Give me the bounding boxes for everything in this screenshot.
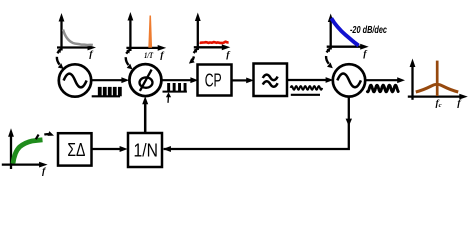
VCO noise plot (blue) axes xyxy=(327,14,369,50)
red white-noise curve xyxy=(200,42,229,43)
VCO sine symbol xyxy=(337,74,361,88)
annotation arrow orange plot to phase detector xyxy=(126,48,133,69)
svg-text:-20 dB/dec: -20 dB/dec xyxy=(350,25,387,36)
gray 1/f noise curve xyxy=(63,30,93,46)
wire CP to loop filter xyxy=(232,79,247,81)
svg-text:1/N: 1/N xyxy=(134,140,158,161)
sigma-delta noise plot (green) axes xyxy=(2,128,48,169)
loop filter box xyxy=(254,64,288,97)
spur plot (orange) axes xyxy=(126,12,166,51)
approx (filter) symbol xyxy=(263,75,278,87)
ripple waveform annotation xyxy=(291,86,323,90)
svg-text:f: f xyxy=(89,49,94,60)
svg-text:f: f xyxy=(457,98,462,109)
green shaped-noise curve xyxy=(13,140,43,164)
svg-text:f: f xyxy=(363,49,368,60)
annotation arrow red plot to CP xyxy=(189,48,198,64)
small up arrow under pulses xyxy=(166,92,171,97)
charge pump box CP xyxy=(198,65,232,96)
sine wave symbol after VCO xyxy=(367,85,398,92)
orange spur spike xyxy=(148,16,152,48)
feedback mid arrowhead xyxy=(346,119,352,127)
wire sigma-delta to divider xyxy=(92,148,121,150)
phi symbol xyxy=(140,70,153,91)
reference noise plot (gray) axes xyxy=(57,13,96,51)
square wave symbol xyxy=(92,88,121,96)
phase detector circle U_PFD xyxy=(129,64,161,96)
svg-text:f: f xyxy=(42,166,47,177)
arrowhead into divider xyxy=(163,146,171,152)
wire divider to phase detector xyxy=(144,103,147,133)
svg-text:CP: CP xyxy=(205,70,222,91)
ripple mean line xyxy=(291,94,320,96)
annotation arrow blue plot to VCO xyxy=(326,47,333,68)
wire loop filter to VCO xyxy=(287,79,326,81)
VCO circle xyxy=(333,64,365,96)
sigma-delta modulator box xyxy=(58,133,92,165)
feedback wire from VCO down and left xyxy=(164,96,349,149)
svg-text:fc: fc xyxy=(436,99,442,109)
oscillator sine symbol xyxy=(64,74,87,88)
svg-text:1/T: 1/T xyxy=(144,50,154,60)
annotation arrow gray plot to oscillator xyxy=(57,48,64,69)
output spectrum plot axes xyxy=(408,59,468,100)
output spectrum skirt curve xyxy=(416,84,458,92)
svg-text:ΣΔ: ΣΔ xyxy=(67,139,85,160)
blue -20dB/dec curve xyxy=(331,18,358,45)
output spectrum carrier spike xyxy=(436,61,439,96)
wire VCO to output xyxy=(365,79,398,81)
pulse train symbol xyxy=(163,84,187,92)
wire phase detector to CP xyxy=(161,79,191,81)
charge pump noise plot (red) axes xyxy=(194,13,231,51)
annotation arrow green plot to sigma-delta xyxy=(36,131,54,139)
divider box 1/N xyxy=(128,133,162,167)
svg-text:f: f xyxy=(226,50,231,61)
svg-text:f: f xyxy=(160,50,165,61)
wire oscillator to phase detector xyxy=(91,79,122,81)
reference oscillator circle xyxy=(59,64,91,96)
